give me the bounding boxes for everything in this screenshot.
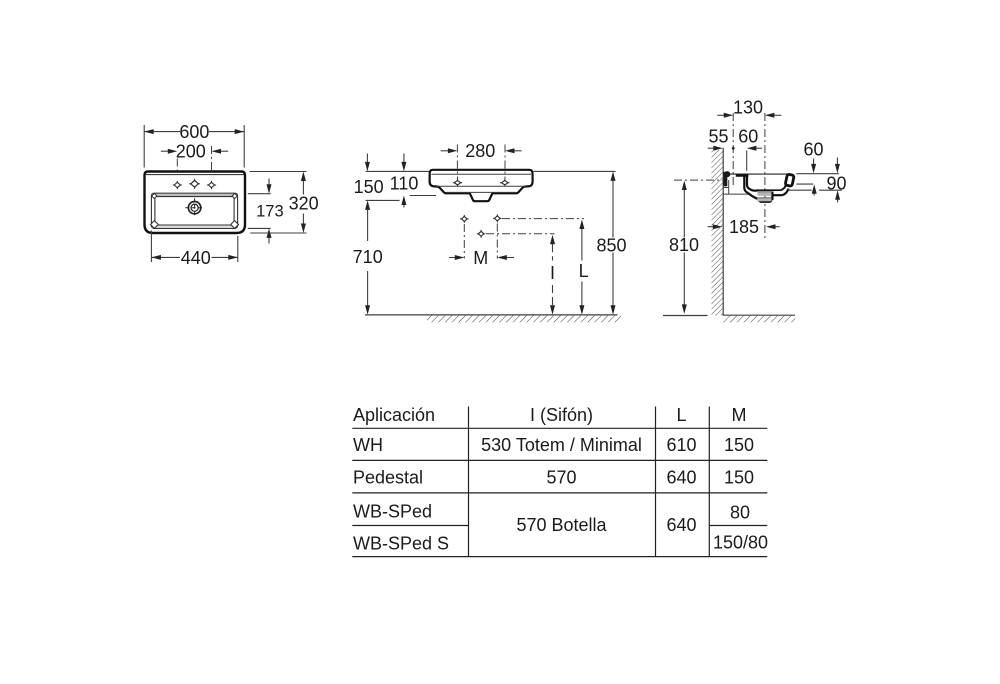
svg-text:L: L	[579, 261, 589, 281]
svg-text:600: 600	[179, 122, 209, 142]
table partial rule col M	[709, 525, 767, 527]
dim 90 arrows	[836, 158, 838, 165]
dim 710 lower line + arrow	[367, 271, 369, 306]
bowl rim inner	[155, 197, 234, 225]
dim 320 extension lines	[250, 171, 307, 173]
svg-text:710: 710	[353, 247, 383, 267]
dim 150 bottom arrow / 710 top	[365, 200, 370, 210]
svg-text:Aplicación: Aplicación	[353, 405, 435, 425]
dim L line	[579, 220, 584, 230]
washbasin face bottom line	[436, 185, 526, 187]
bowl corner facet TR	[232, 193, 237, 198]
drain hole centre	[478, 231, 484, 236]
dim 150 bottom reference	[366, 199, 400, 201]
svg-text:WH: WH	[353, 435, 383, 455]
dim 110 top arrow	[403, 154, 405, 163]
dim 200 centerlines	[176, 159, 178, 185]
svg-text:200: 200	[176, 141, 206, 161]
svg-text:90: 90	[826, 173, 846, 193]
floor line left of wall	[663, 315, 708, 317]
section front channel inner curve	[747, 176, 758, 191]
dim 440 extension lines	[150, 231, 152, 263]
dim 280 arrows	[441, 150, 448, 152]
supply hole left	[462, 216, 468, 221]
faucet hole right	[208, 182, 214, 187]
right reference line mid	[796, 183, 813, 185]
svg-text:280: 280	[465, 141, 495, 161]
svg-text:I (Sifón): I (Sifón)	[530, 405, 593, 425]
floor hatching (front view)	[427, 316, 621, 323]
dim 280 centerlines	[456, 145, 458, 180]
dim M arrows	[449, 257, 455, 259]
overflow rim hook	[785, 174, 794, 186]
bracket lower thin lines	[724, 187, 729, 189]
drain right wall	[771, 192, 773, 201]
floor line (front view)	[365, 314, 618, 316]
table vertical separator 1	[468, 407, 470, 557]
section front channel outer curve	[744, 176, 772, 202]
table vertical separator 3	[708, 407, 710, 558]
dim 173 arrows	[268, 179, 270, 186]
bowl corner facet BL	[151, 221, 159, 229]
svg-text:M: M	[473, 248, 488, 268]
right reference line bottom	[788, 189, 812, 191]
svg-text:WB-SPed: WB-SPed	[353, 501, 432, 521]
dim 60 left arrow	[757, 147, 763, 149]
bowl corner facet TL	[152, 193, 157, 198]
table bottom rule	[352, 556, 767, 558]
table rule under WH row	[352, 459, 767, 461]
svg-text:640: 640	[666, 468, 696, 488]
I reference dash line	[486, 233, 555, 235]
bowl underside right	[773, 194, 782, 196]
top reference line right	[534, 170, 616, 172]
svg-text:173: 173	[256, 202, 284, 220]
svg-text:M: M	[732, 405, 747, 425]
table rule under Pedestal row	[352, 492, 767, 494]
M centerline left	[463, 224, 465, 259]
L reference dash line	[502, 218, 584, 220]
svg-text:185: 185	[729, 217, 759, 237]
floor hatching (side view)	[723, 316, 795, 323]
svg-text:530 Totem / Minimal: 530 Totem / Minimal	[481, 435, 642, 455]
svg-text:60: 60	[803, 140, 823, 160]
drain flange upper	[758, 192, 772, 196]
svg-text:440: 440	[181, 248, 211, 268]
wall face line	[722, 148, 724, 316]
floor line right of wall	[723, 314, 795, 316]
bowl inner bottom	[757, 189, 780, 191]
dim 810 top dash reference	[674, 179, 723, 181]
svg-text:850: 850	[596, 235, 626, 255]
svg-text:150: 150	[354, 177, 384, 197]
table vertical separator 2	[655, 407, 657, 557]
dim 850 line	[611, 171, 616, 181]
dim 320 line + arrows	[302, 180, 304, 195]
drain centerline (side)	[764, 113, 766, 238]
svg-text:320: 320	[289, 194, 319, 214]
dim 185 arrows	[708, 226, 714, 228]
faucet hole left	[174, 182, 180, 187]
svg-text:640: 640	[666, 515, 696, 535]
svg-text:810: 810	[669, 235, 699, 255]
faucet hole centre	[191, 180, 199, 187]
bowl corner facet BR	[231, 221, 239, 229]
basin deck line	[146, 174, 245, 176]
front elevation top reference line left	[366, 170, 429, 172]
dim 130 arrows	[717, 114, 724, 116]
svg-text:150: 150	[724, 435, 754, 455]
dim 110 bottom reference	[410, 195, 436, 197]
front hole right	[502, 180, 508, 185]
60 extension line	[746, 151, 748, 171]
svg-text:130: 130	[733, 97, 763, 117]
dim 110 bottom arrow	[401, 196, 406, 206]
svg-text:570 Botella: 570 Botella	[516, 515, 607, 535]
faucet centerline (side)	[732, 113, 734, 187]
supply hole right	[495, 216, 501, 221]
svg-text:150: 150	[724, 468, 754, 488]
dim I line	[550, 235, 555, 245]
svg-text:55: 55	[708, 127, 728, 147]
drain circles	[188, 202, 200, 214]
washbasin section top line	[729, 173, 787, 175]
washbasin section deck thick bar	[736, 174, 749, 176]
svg-text:570: 570	[546, 468, 576, 488]
svg-text:80: 80	[730, 503, 750, 523]
wall bracket section	[723, 172, 727, 187]
front hole left	[454, 180, 460, 185]
svg-text:I: I	[550, 263, 555, 283]
dim 200 arrows	[161, 150, 169, 152]
svg-text:Pedestal: Pedestal	[353, 468, 423, 488]
svg-text:110: 110	[390, 174, 419, 194]
table rule under header	[352, 427, 767, 429]
washbasin tier2 line	[446, 191, 516, 193]
bowl rim top shading	[153, 194, 237, 197]
svg-text:610: 610	[666, 435, 696, 455]
washbasin front outline	[430, 170, 533, 201]
dim 55 arrow	[708, 147, 714, 149]
dim 600 line + arrows	[144, 131, 180, 133]
M centerline right	[496, 224, 498, 259]
dim 600 extension lines	[143, 125, 145, 168]
svg-text:L: L	[676, 405, 686, 425]
svg-text:150/80: 150/80	[713, 533, 768, 553]
dim 60 right arrows	[813, 159, 815, 165]
drain centre mark	[194, 198, 196, 217]
wall hatching	[712, 150, 724, 316]
drain flange lower	[757, 198, 771, 202]
bowl rim outer	[151, 193, 237, 228]
svg-text:WB-SPed S: WB-SPed S	[353, 534, 449, 554]
svg-text:60: 60	[738, 127, 758, 147]
dim 440 line + arrows	[151, 256, 180, 258]
dim 810 line	[682, 181, 687, 191]
bowl rim bottom shading	[153, 225, 237, 227]
right reference line top	[796, 173, 839, 175]
table partial rule col1	[352, 525, 468, 527]
washbasin front deck line	[432, 173, 532, 175]
dim 173 reference lines	[248, 193, 271, 195]
dim 150 top arrow	[366, 154, 368, 163]
basin outer rim (plan)	[145, 172, 246, 234]
bowl inner right curve	[780, 185, 786, 190]
